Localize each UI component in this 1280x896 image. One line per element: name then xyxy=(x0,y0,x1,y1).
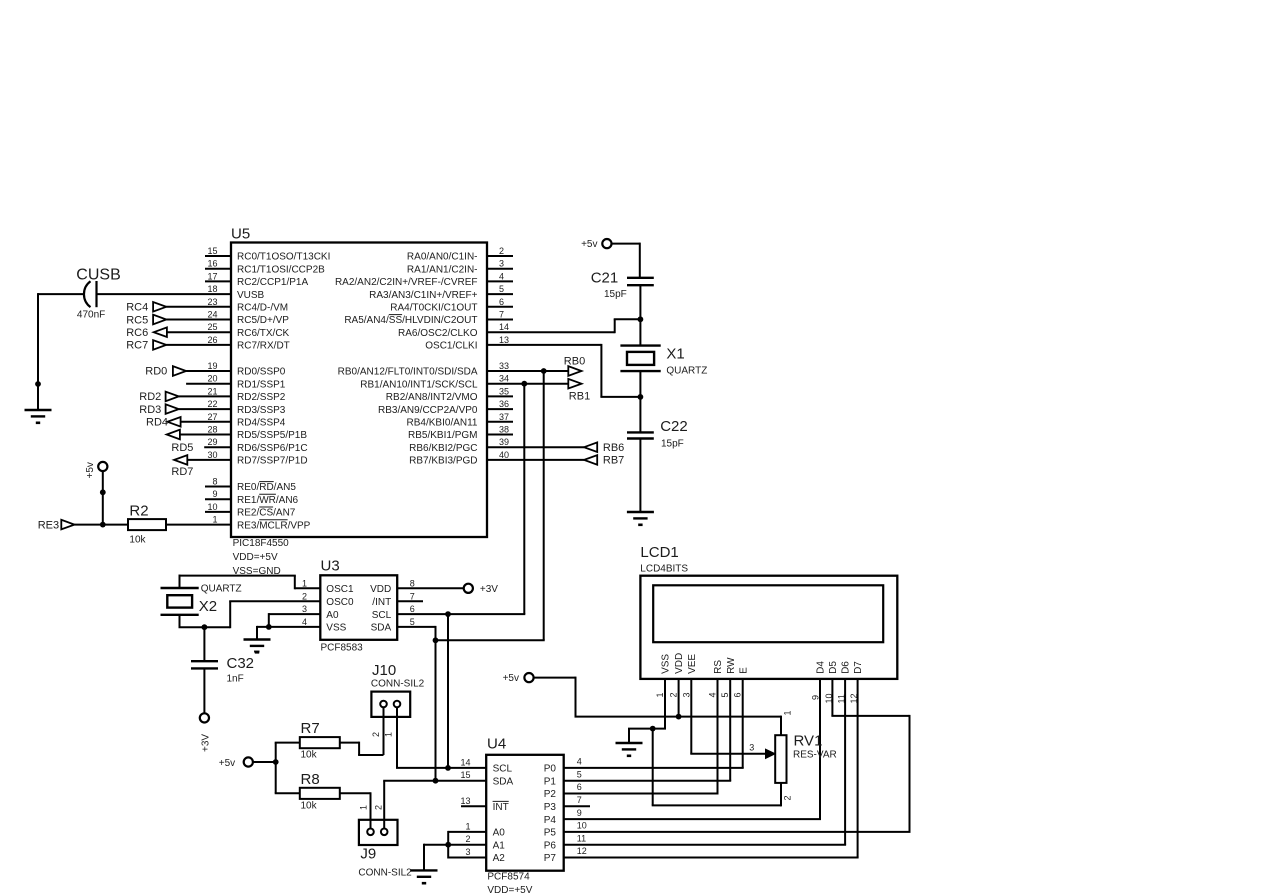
svg-text:VSS: VSS xyxy=(326,623,346,634)
svg-text:27: 27 xyxy=(207,412,217,422)
svg-text:RB1: RB1 xyxy=(569,391,590,403)
svg-text:RB7: RB7 xyxy=(603,455,624,467)
svg-text:RD0/SSP0: RD0/SSP0 xyxy=(237,367,286,378)
svg-text:RA5/AN4/SS/HLVDIN/C2OUT: RA5/AN4/SS/HLVDIN/C2OUT xyxy=(344,315,477,326)
svg-text:U3: U3 xyxy=(321,558,340,575)
svg-text:+3V: +3V xyxy=(480,584,498,595)
svg-text:OSC1: OSC1 xyxy=(326,584,354,595)
wire U3 pin8 VDD to +3V xyxy=(397,587,464,589)
svg-text:12: 12 xyxy=(577,846,587,856)
svg-text:P6: P6 xyxy=(544,840,557,851)
svg-text:RB6: RB6 xyxy=(603,442,624,454)
svg-text:5: 5 xyxy=(410,617,415,627)
wire U5 pin 20 RD1 xyxy=(186,383,231,385)
svg-text:RC1/T1OSI/CCP2B: RC1/T1OSI/CCP2B xyxy=(237,264,325,275)
junction SCL bus at pin 34 xyxy=(521,381,527,387)
svg-text:7: 7 xyxy=(577,795,582,805)
svg-text:VUSB: VUSB xyxy=(237,290,265,301)
svg-text:RE2/CS/AN7: RE2/CS/AN7 xyxy=(237,508,296,519)
svg-text:10: 10 xyxy=(577,821,587,831)
power +3V terminal at U3 VDD xyxy=(464,584,499,595)
wire SDA bus vertical xyxy=(543,371,545,640)
svg-text:C22: C22 xyxy=(660,418,688,435)
IC U4 PCF8574 body xyxy=(460,736,586,896)
svg-text:13: 13 xyxy=(460,796,470,806)
svg-text:8: 8 xyxy=(212,477,217,487)
capacitor C21 15pF xyxy=(591,270,654,301)
svg-text:2: 2 xyxy=(465,834,470,844)
svg-text:10: 10 xyxy=(207,502,217,512)
wire U3 pin3 A0 to VSS net xyxy=(269,613,321,627)
svg-text:D5: D5 xyxy=(828,661,839,674)
wire X1 to C22 xyxy=(639,371,641,432)
svg-text:LCD4BITS: LCD4BITS xyxy=(640,564,688,575)
junction A0/VSS xyxy=(266,624,272,630)
svg-text:SCL: SCL xyxy=(372,610,392,621)
svg-text:RA6/OSC2/CLKO: RA6/OSC2/CLKO xyxy=(398,328,478,339)
svg-text:RC4/D-/VM: RC4/D-/VM xyxy=(237,303,288,314)
svg-text:/INT: /INT xyxy=(372,597,391,608)
connector J10 CONN-SIL2 xyxy=(371,662,425,737)
svg-text:16: 16 xyxy=(207,259,217,269)
svg-text:PCF8574: PCF8574 xyxy=(487,872,530,883)
port RD4 xyxy=(146,417,231,429)
svg-text:RA0/AN0/C1IN-: RA0/AN0/C1IN- xyxy=(407,252,478,263)
ground at U3 VSS xyxy=(244,638,271,640)
svg-text:7: 7 xyxy=(499,310,504,320)
svg-text:VDD: VDD xyxy=(370,584,391,595)
svg-text:10k: 10k xyxy=(301,801,318,812)
svg-text:D7: D7 xyxy=(853,661,864,674)
wire U3 pin4 VSS to ground xyxy=(257,626,320,640)
wire U3 pin5 SDA xyxy=(397,626,545,640)
junction +5v xyxy=(273,759,279,765)
svg-text:RC5/D+/VP: RC5/D+/VP xyxy=(237,315,289,326)
svg-text:OSC1/CLKI: OSC1/CLKI xyxy=(425,341,477,352)
svg-text:36: 36 xyxy=(499,399,509,409)
U5 pins 2-7 stubs xyxy=(487,256,513,320)
junction OSC1 node xyxy=(638,394,644,400)
svg-text:+5v: +5v xyxy=(85,462,96,478)
svg-text:40: 40 xyxy=(499,450,509,460)
svg-text:R7: R7 xyxy=(301,720,320,737)
svg-text:20: 20 xyxy=(207,374,217,384)
svg-text:VDD: VDD xyxy=(674,653,685,674)
junction +5v / RE3 / R2 xyxy=(100,522,106,528)
svg-text:P3: P3 xyxy=(544,802,557,813)
svg-text:3: 3 xyxy=(302,604,307,614)
svg-text:3: 3 xyxy=(499,259,504,269)
svg-text:P7: P7 xyxy=(544,853,557,864)
svg-text:R8: R8 xyxy=(301,771,320,788)
svg-text:RC6/TX/CK: RC6/TX/CK xyxy=(237,328,290,339)
wire +5v to R7/R8 xyxy=(253,743,300,794)
svg-text:SCL: SCL xyxy=(493,764,513,775)
svg-text:RB2/AN8/INT2/VMO: RB2/AN8/INT2/VMO xyxy=(386,392,478,403)
svg-text:RB5/KBI1/PGM: RB5/KBI1/PGM xyxy=(408,430,477,441)
svg-text:RV1: RV1 xyxy=(794,733,823,750)
svg-text:+5v: +5v xyxy=(581,239,597,250)
wire +5v to LCD VDD and RV1 pin1 xyxy=(534,677,781,736)
svg-text:U4: U4 xyxy=(487,736,506,753)
svg-text:1: 1 xyxy=(655,692,665,697)
svg-text:1: 1 xyxy=(783,710,793,715)
svg-text:30: 30 xyxy=(207,450,217,460)
svg-text:RE1/WR/AN6: RE1/WR/AN6 xyxy=(237,495,299,506)
junction SDA to U4 xyxy=(433,637,439,643)
svg-text:RD0: RD0 xyxy=(145,366,167,378)
wire J9 pin2 up to SDA net xyxy=(383,781,486,829)
port RC7 xyxy=(126,340,231,352)
wire J10 pin1 down to SCL net xyxy=(396,707,486,768)
svg-text:21: 21 xyxy=(207,386,217,396)
port RB1 on U5 pin 34 xyxy=(487,379,590,403)
svg-text:13: 13 xyxy=(499,335,509,345)
svg-text:10k: 10k xyxy=(129,535,146,546)
svg-text:3: 3 xyxy=(749,743,754,753)
wire R7 to J10 pin2 xyxy=(340,742,384,755)
wire LCD VEE to RV1 wiper xyxy=(690,679,766,754)
junction X2/C32 node xyxy=(202,624,208,630)
wire LCD D6 to U4 P6 xyxy=(564,679,846,845)
svg-text:A2: A2 xyxy=(493,853,506,864)
U5 pin 15,16,17 stubs xyxy=(205,256,231,281)
svg-text:2: 2 xyxy=(374,805,384,810)
power +5v terminal top xyxy=(581,239,611,250)
svg-text:4: 4 xyxy=(302,617,307,627)
svg-text:15pF: 15pF xyxy=(661,438,684,449)
svg-text:P2: P2 xyxy=(544,789,557,800)
svg-text:RD7: RD7 xyxy=(171,466,193,478)
wire C21 to X1 xyxy=(639,285,641,345)
svg-text:26: 26 xyxy=(207,335,217,345)
svg-text:SDA: SDA xyxy=(493,776,514,787)
resistor R2 10k xyxy=(128,503,166,546)
wire C32 to +3V terminal xyxy=(203,668,205,713)
wire LCD RS to U4 P2 xyxy=(564,679,719,794)
ground at U4 address pins xyxy=(411,869,438,871)
junction on CUSB ground wire xyxy=(35,381,41,387)
svg-text:35: 35 xyxy=(499,386,509,396)
wire C22 to ground xyxy=(639,439,641,513)
svg-text:RC4: RC4 xyxy=(126,302,148,314)
svg-text:RD5/SSP5/P1B: RD5/SSP5/P1B xyxy=(237,430,307,441)
power +5v terminal at LCD xyxy=(503,673,534,684)
capacitor CUSB 470nF xyxy=(76,267,120,321)
svg-text:+5v: +5v xyxy=(503,673,519,684)
wire CUSB left to ground xyxy=(38,293,85,410)
svg-text:RC6: RC6 xyxy=(126,327,148,339)
junction LCD VDD node xyxy=(676,714,682,720)
wire U4 A0/A1/A2 tie xyxy=(448,831,486,859)
svg-text:C32: C32 xyxy=(227,655,255,672)
svg-text:RA1/AN1/C2IN-: RA1/AN1/C2IN- xyxy=(407,264,478,275)
svg-text:6: 6 xyxy=(499,297,504,307)
port RD2 xyxy=(139,391,231,403)
svg-text:VSS: VSS xyxy=(661,654,672,674)
crystal X1 QUARTZ xyxy=(620,346,707,377)
wire U3 pin1 OSC1 to X2 top xyxy=(179,575,321,590)
svg-text:D6: D6 xyxy=(841,661,852,674)
wire SDA down to U4 xyxy=(435,640,437,780)
svg-text:38: 38 xyxy=(499,425,509,435)
svg-text:33: 33 xyxy=(499,361,509,371)
svg-text:RC5: RC5 xyxy=(126,314,148,326)
junction SCL at U4 pin14 xyxy=(445,765,451,771)
svg-text:QUARTZ: QUARTZ xyxy=(666,366,707,377)
port RC4 xyxy=(126,302,231,314)
svg-text:9: 9 xyxy=(212,489,217,499)
svg-text:OSC0: OSC0 xyxy=(326,597,354,608)
svg-text:2: 2 xyxy=(669,692,679,697)
junction SDA bus at pin 33 xyxy=(541,368,547,374)
wire LCD D4 to U4 P4 xyxy=(564,679,821,819)
svg-text:4: 4 xyxy=(708,692,718,697)
svg-text:25: 25 xyxy=(207,322,217,332)
svg-text:LCD1: LCD1 xyxy=(640,544,678,561)
svg-text:RE3: RE3 xyxy=(38,519,59,531)
crystal X2 QUARTZ xyxy=(161,583,242,615)
svg-text:A1: A1 xyxy=(493,840,506,851)
U4 P3 stub xyxy=(564,805,590,807)
svg-text:5: 5 xyxy=(577,769,582,779)
svg-text:C21: C21 xyxy=(591,270,619,287)
U5 pins 35-38 stubs xyxy=(487,396,513,434)
power +5v terminal mid xyxy=(219,757,253,768)
svg-text:RS: RS xyxy=(713,660,724,674)
svg-text:P4: P4 xyxy=(544,815,557,826)
resistor R7 10k xyxy=(300,720,340,761)
wire SCL down to U4 xyxy=(447,614,449,768)
wire LCD D5 to U4 P5 loop xyxy=(564,679,911,832)
svg-text:RB7/KBI3/PGD: RB7/KBI3/PGD xyxy=(409,456,477,467)
svg-text:RD3: RD3 xyxy=(139,404,161,416)
junction OSC2 node xyxy=(638,316,644,322)
svg-text:23: 23 xyxy=(207,297,217,307)
junction VSS/RV1 pin2 xyxy=(650,726,656,732)
svg-text:RC7/RX/DT: RC7/RX/DT xyxy=(237,341,290,352)
svg-text:2: 2 xyxy=(302,591,307,601)
wire SCL bus vertical xyxy=(523,384,525,614)
wire RV1 pin2 loop xyxy=(652,729,781,807)
svg-text:VDD=+5V: VDD=+5V xyxy=(487,885,532,896)
svg-text:RES-VAR: RES-VAR xyxy=(793,750,837,761)
svg-text:3: 3 xyxy=(681,692,691,697)
U3 pin7 /INT stub xyxy=(397,600,423,602)
svg-text:17: 17 xyxy=(207,271,217,281)
svg-text:RB0/AN12/FLT0/INT0/SDI/SDA: RB0/AN12/FLT0/INT0/SDI/SDA xyxy=(338,367,478,378)
svg-text:1nF: 1nF xyxy=(227,674,244,685)
IC U5 PIC18F4550 body xyxy=(207,226,509,578)
svg-text:CONN-SIL2: CONN-SIL2 xyxy=(358,868,412,879)
wire U5 pin 29 RD6 xyxy=(204,446,231,448)
svg-text:RB3/AN9/CCP2A/VP0: RB3/AN9/CCP2A/VP0 xyxy=(378,405,478,416)
svg-text:6: 6 xyxy=(733,692,743,697)
junction SDA at U4 pin15 xyxy=(433,778,439,784)
svg-text:VDD=+5V: VDD=+5V xyxy=(233,552,278,563)
port RD3 xyxy=(139,404,231,416)
wire U5 pin 14 to OSC2 node xyxy=(487,319,640,333)
wire LCD E to U4 P0 xyxy=(564,679,744,768)
svg-text:RE0/RD/AN5: RE0/RD/AN5 xyxy=(237,482,296,493)
LCD1 LCD4BITS display xyxy=(640,544,897,679)
svg-text:E: E xyxy=(738,667,749,674)
svg-text:1: 1 xyxy=(465,821,470,831)
svg-text:1: 1 xyxy=(384,732,394,737)
svg-text:RA3/AN3/C1IN+/VREF+: RA3/AN3/C1IN+/VREF+ xyxy=(369,290,478,301)
svg-text:SDA: SDA xyxy=(371,623,392,634)
port RB0 on U5 pin 33 xyxy=(487,356,585,376)
port RB7 on U5 pin 40 xyxy=(487,455,624,467)
svg-text:P0: P0 xyxy=(544,764,557,775)
svg-text:8: 8 xyxy=(410,578,415,588)
port RC6 xyxy=(126,327,231,339)
svg-text:J9: J9 xyxy=(360,846,376,863)
svg-text:470nF: 470nF xyxy=(77,310,105,321)
svg-text:1: 1 xyxy=(302,578,307,588)
svg-text:RE3/MCLR/VPP: RE3/MCLR/VPP xyxy=(237,520,311,531)
ground below LCD xyxy=(616,742,643,744)
svg-text:RC2/CCP1/P1A: RC2/CCP1/P1A xyxy=(237,277,308,288)
svg-text:RC0/T1OSO/T13CKI: RC0/T1OSO/T13CKI xyxy=(237,252,330,263)
wire LCD RW to U4 P1 xyxy=(564,679,732,781)
svg-text:RD3/SSP3: RD3/SSP3 xyxy=(237,405,286,416)
ground below CUSB xyxy=(25,409,52,411)
U4 pin13 INT stub xyxy=(461,805,486,807)
wire R2 to U5 pin 1 xyxy=(166,524,231,526)
svg-text:11: 11 xyxy=(577,833,586,843)
svg-text:37: 37 xyxy=(499,412,509,422)
ground below C22 xyxy=(627,511,654,513)
svg-text:U5: U5 xyxy=(231,226,250,243)
capacitor C22 15pF xyxy=(627,418,688,449)
port RD5 on pin 28 xyxy=(167,430,231,454)
svg-text:A0: A0 xyxy=(493,828,506,839)
wire LCD D7 to U4 P7 xyxy=(564,679,859,858)
svg-text:3: 3 xyxy=(465,847,470,857)
svg-text:6: 6 xyxy=(410,604,415,614)
svg-text:RB1/AN10/INT1/SCK/SCL: RB1/AN10/INT1/SCK/SCL xyxy=(360,379,478,390)
connector J9 CONN-SIL2 xyxy=(358,805,412,879)
wire J10 pin2 down to R7 xyxy=(383,707,385,755)
IC U3 PCF8583 body xyxy=(302,558,415,654)
svg-text:RB4/KBI0/AN11: RB4/KBI0/AN11 xyxy=(407,418,478,429)
resistor R8 10k xyxy=(300,771,340,812)
svg-text:15pF: 15pF xyxy=(604,289,627,300)
RV1 wiper arrowhead xyxy=(766,749,776,758)
wire U3 pin6 SCL xyxy=(397,613,525,615)
svg-text:RD2/SSP2: RD2/SSP2 xyxy=(237,392,286,403)
svg-text:CUSB: CUSB xyxy=(76,267,120,284)
svg-text:14: 14 xyxy=(499,322,509,332)
wire R8 to J9 pin1 xyxy=(340,792,371,828)
svg-text:1: 1 xyxy=(212,515,217,525)
svg-text:24: 24 xyxy=(207,310,217,320)
svg-text:2: 2 xyxy=(499,246,504,256)
svg-text:1: 1 xyxy=(359,805,369,810)
svg-text:RD7/SSP7/P1D: RD7/SSP7/P1D xyxy=(237,456,308,467)
svg-text:RA2/AN2/C2IN+/VREF-/CVREF: RA2/AN2/C2IN+/VREF-/CVREF xyxy=(335,277,478,288)
wire node to C32 xyxy=(203,627,205,661)
svg-text:15: 15 xyxy=(207,246,217,256)
svg-text:+5v: +5v xyxy=(219,758,235,769)
svg-text:4: 4 xyxy=(577,757,582,767)
svg-text:CONN-SIL2: CONN-SIL2 xyxy=(371,679,425,690)
junction A1 tie xyxy=(445,842,451,848)
power +5v terminal left xyxy=(85,462,108,479)
svg-text:14: 14 xyxy=(460,757,470,767)
svg-text:RD2: RD2 xyxy=(139,391,161,403)
svg-text:7: 7 xyxy=(410,591,415,601)
svg-text:22: 22 xyxy=(207,399,217,409)
svg-text:39: 39 xyxy=(499,437,509,447)
svg-text:6: 6 xyxy=(577,782,582,792)
svg-text:15: 15 xyxy=(460,770,470,780)
svg-text:5: 5 xyxy=(499,284,504,294)
svg-text:X2: X2 xyxy=(199,598,217,615)
wire VUSB: CUSB to U5 pin 18 xyxy=(97,293,232,295)
svg-text:A0: A0 xyxy=(326,610,339,621)
svg-text:10k: 10k xyxy=(301,750,318,761)
svg-text:INT: INT xyxy=(493,802,509,813)
wire A-tie to ground xyxy=(424,844,448,871)
svg-text:2: 2 xyxy=(783,795,793,800)
svg-text:P5: P5 xyxy=(544,828,557,839)
svg-text:D4: D4 xyxy=(816,661,827,674)
svg-text:RW: RW xyxy=(726,657,737,674)
svg-text:RD4: RD4 xyxy=(146,417,168,429)
svg-text:+3V: +3V xyxy=(201,734,212,752)
svg-text:18: 18 xyxy=(207,284,217,294)
wire +5v to C21 xyxy=(612,243,640,278)
svg-text:X1: X1 xyxy=(666,346,684,363)
svg-text:RB6/KBI2/PGC: RB6/KBI2/PGC xyxy=(409,443,477,454)
svg-text:R2: R2 xyxy=(129,503,148,520)
svg-text:RD5: RD5 xyxy=(171,442,193,454)
svg-text:P1: P1 xyxy=(544,776,557,787)
svg-text:2: 2 xyxy=(371,732,381,737)
svg-text:28: 28 xyxy=(207,425,217,435)
svg-text:RB0: RB0 xyxy=(564,356,585,368)
svg-text:19: 19 xyxy=(207,361,217,371)
junction on +5v wire xyxy=(100,489,106,495)
junction SCL to U4 xyxy=(445,611,451,617)
port RD7 on pin 30 xyxy=(171,455,231,478)
power +3V terminal below C32 xyxy=(200,713,212,752)
wire X2 bottom to U3 pin2 OSC0 xyxy=(179,601,321,628)
svg-text:RA4/T0CKI/C1OUT: RA4/T0CKI/C1OUT xyxy=(390,303,477,314)
svg-text:9: 9 xyxy=(577,808,582,818)
svg-text:RD6/SSP6/P1C: RD6/SSP6/P1C xyxy=(237,443,308,454)
capacitor C32 1nF xyxy=(191,652,260,685)
LCD1 pin numbers xyxy=(655,692,859,703)
svg-text:QUARTZ: QUARTZ xyxy=(201,583,242,594)
wire LCD VSS to ground net xyxy=(628,679,666,743)
svg-text:RD4/SSP4: RD4/SSP4 xyxy=(237,418,286,429)
port RC5 xyxy=(126,314,231,326)
svg-text:5: 5 xyxy=(720,692,730,697)
svg-text:J10: J10 xyxy=(372,662,396,679)
U5 pin 8,9,10 stubs xyxy=(205,487,231,512)
wire U5 pin 13 to OSC1 node xyxy=(487,344,640,397)
wire +5v down to R2 net xyxy=(102,471,104,524)
svg-text:RC7: RC7 xyxy=(126,340,148,352)
potentiometer RV1 RES-VAR xyxy=(775,710,837,800)
wire RE3 to R2 xyxy=(75,524,129,526)
svg-text:9: 9 xyxy=(810,695,820,700)
svg-text:PCF8583: PCF8583 xyxy=(321,643,364,654)
svg-text:RD1/SSP1: RD1/SSP1 xyxy=(237,379,286,390)
